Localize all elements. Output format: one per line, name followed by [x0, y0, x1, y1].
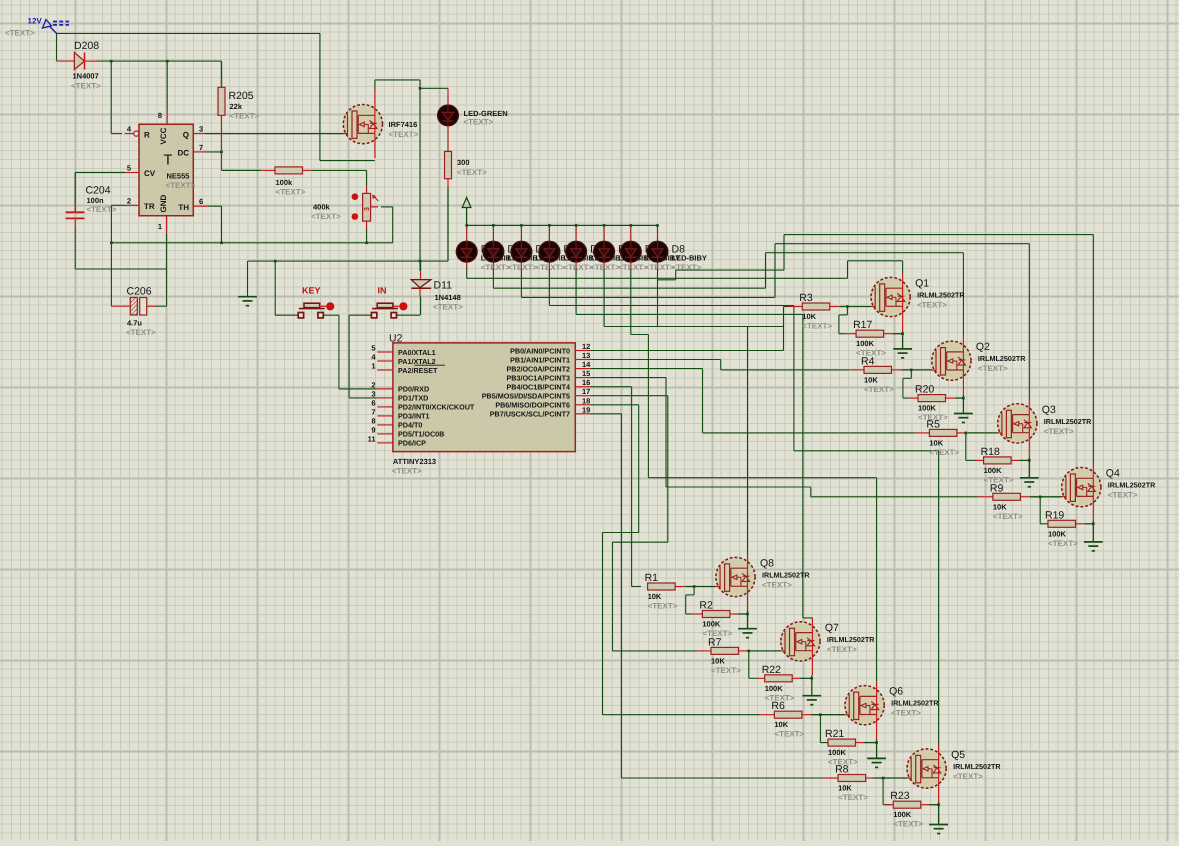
- svg-text:<TEXT>: <TEXT>: [481, 263, 511, 272]
- svg-text:1N4148: 1N4148: [435, 293, 461, 302]
- ground Q8: [738, 629, 757, 638]
- ground Q1: [893, 349, 912, 358]
- button KEY: [275, 261, 334, 318]
- svg-text:14: 14: [582, 360, 591, 369]
- svg-text:100K: 100K: [1048, 529, 1067, 538]
- button IN: [349, 286, 407, 318]
- svg-text:100K: 100K: [984, 466, 1003, 475]
- svg-text:10K: 10K: [648, 592, 662, 601]
- svg-text:IRLML2502TR: IRLML2502TR: [953, 762, 1001, 771]
- svg-text:6: 6: [371, 398, 375, 407]
- resistor R17: [846, 319, 904, 358]
- resistor R6: [760, 700, 845, 739]
- svg-text:ATTINY2313: ATTINY2313: [393, 457, 436, 466]
- svg-text:18: 18: [582, 396, 590, 405]
- svg-text:100K: 100K: [918, 404, 937, 413]
- svg-text:PD4/T0: PD4/T0: [398, 421, 422, 430]
- label text D1: [481, 263, 511, 272]
- svg-text:<TEXT>: <TEXT>: [838, 793, 868, 802]
- LED D2 LED-BIBY: [483, 224, 543, 268]
- resistor R21: [825, 728, 878, 767]
- LED D6 LED-BIBY: [594, 224, 654, 268]
- wire IRF7416 source rail: [375, 80, 420, 271]
- svg-text:17: 17: [582, 387, 590, 396]
- svg-text:<TEXT>: <TEXT>: [978, 364, 1008, 373]
- svg-text:<TEXT>: <TEXT>: [457, 168, 487, 177]
- wire KEY to U2 PD0: [324, 315, 378, 389]
- resistor 300: [445, 151, 488, 261]
- svg-text:<TEXT>: <TEXT>: [774, 730, 804, 739]
- resistor R19: [1045, 509, 1095, 548]
- svg-text:C206: C206: [127, 286, 152, 298]
- wire 12V rail top: [57, 33, 375, 160]
- svg-text:<TEXT>: <TEXT>: [802, 322, 832, 331]
- capacitor C206: [111, 286, 156, 338]
- label text D3: [535, 263, 565, 272]
- wire IN right to D11: [397, 314, 420, 316]
- svg-text:1N4007: 1N4007: [73, 72, 99, 81]
- svg-text:8: 8: [371, 416, 375, 425]
- resistor R5: [915, 418, 998, 457]
- wire LED1 to Q1 drain: [467, 261, 903, 279]
- svg-text:<TEXT>: <TEXT>: [563, 263, 593, 272]
- resistor R8: [824, 764, 908, 803]
- svg-text:10K: 10K: [838, 784, 852, 793]
- svg-text:IN: IN: [378, 286, 387, 296]
- svg-text:5: 5: [127, 164, 131, 173]
- svg-text:8: 8: [158, 111, 162, 120]
- svg-text:100K: 100K: [828, 748, 847, 757]
- svg-text:Q2: Q2: [976, 341, 990, 353]
- svg-text:Q: Q: [183, 130, 189, 139]
- wire R6 to R21: [820, 715, 828, 743]
- svg-text:PD5/T1/OC0B: PD5/T1/OC0B: [398, 430, 444, 439]
- svg-text:<TEXT>: <TEXT>: [917, 301, 947, 310]
- LED D1 LED-BIBY: [456, 224, 516, 268]
- svg-text:IRLML2502TR: IRLML2502TR: [827, 635, 875, 644]
- wire R9 to R19: [1040, 497, 1048, 524]
- svg-text:<TEXT>: <TEXT>: [827, 645, 857, 654]
- svg-text:12V: 12V: [28, 17, 43, 26]
- wire Q output to gate: [205, 133, 344, 135]
- svg-text:7: 7: [199, 143, 203, 152]
- svg-text:Q1: Q1: [915, 278, 929, 290]
- label text D6: [618, 263, 648, 272]
- svg-text:15: 15: [582, 369, 590, 378]
- svg-text:PA2/RESET: PA2/RESET: [398, 366, 438, 375]
- svg-text:10K: 10K: [864, 375, 878, 384]
- svg-text:R2: R2: [699, 600, 713, 612]
- wire IN to U2 PD1: [349, 315, 377, 398]
- wire Q6 source to ground: [876, 739, 878, 758]
- resistor R2: [693, 600, 749, 639]
- transistor Q9 IRF7416: [343, 100, 418, 158]
- svg-text:R19: R19: [1045, 509, 1064, 521]
- resistor R22: [757, 664, 813, 703]
- wire 100k to pot: [312, 170, 367, 186]
- wire TR net vertical: [110, 205, 125, 306]
- wire pin16 to R1: [590, 387, 641, 587]
- wire to LED-GREEN anode: [419, 87, 448, 97]
- svg-text:100k: 100k: [276, 178, 294, 187]
- svg-text:<TEXT>: <TEXT>: [645, 263, 675, 272]
- svg-text:<TEXT>: <TEXT>: [464, 118, 494, 127]
- svg-text:PB4/OC1B/PCINT4: PB4/OC1B/PCINT4: [506, 383, 570, 392]
- chip U2 ATTINY2313: [368, 333, 592, 476]
- svg-text:<TEXT>: <TEXT>: [590, 263, 620, 272]
- label text D2: [507, 263, 537, 272]
- svg-text:6: 6: [199, 197, 203, 206]
- wire to NE555 reset pin: [111, 61, 122, 134]
- resistor R4: [849, 355, 912, 394]
- wire D208 cathode rail: [97, 60, 222, 63]
- svg-text:<TEXT>: <TEXT>: [433, 303, 463, 312]
- ground Q5: [929, 825, 948, 834]
- svg-text:100K: 100K: [856, 339, 875, 348]
- svg-text:<TEXT>: <TEXT>: [648, 602, 678, 611]
- ground Q3: [1020, 478, 1039, 487]
- wire pin13 to R4: [590, 360, 849, 370]
- svg-text:<TEXT>: <TEXT>: [1048, 539, 1078, 548]
- svg-text:<TEXT>: <TEXT>: [953, 772, 983, 781]
- svg-text:PB1/AIN1/PCINT1: PB1/AIN1/PCINT1: [510, 355, 570, 364]
- power symbol 12V: [5, 17, 69, 38]
- svg-text:R1: R1: [645, 572, 659, 584]
- svg-text:100K: 100K: [893, 810, 912, 819]
- svg-text:LED-BIBY: LED-BIBY: [672, 254, 707, 263]
- wire Q2 source to ground: [962, 395, 964, 414]
- wire pin14 to R5: [590, 369, 915, 433]
- svg-text:PB0/AIN0/PCINT0: PB0/AIN0/PCINT0: [510, 346, 570, 355]
- capacitor C204: [66, 173, 126, 229]
- transistor Q1 IRML2502TR: [871, 273, 965, 331]
- wire R4 gate node jog: [903, 370, 932, 398]
- chip U1 NE555: [125, 109, 209, 234]
- svg-text:<TEXT>: <TEXT>: [71, 82, 101, 91]
- svg-text:Q8: Q8: [760, 558, 774, 570]
- resistor R205: [218, 61, 260, 170]
- wire Q1 source to ground: [902, 331, 904, 349]
- resistor R9: [978, 482, 1062, 521]
- wire to NE555 vcc pin: [166, 61, 168, 109]
- label text D7: [645, 263, 675, 272]
- wire Q7 source to ground: [811, 675, 813, 695]
- svg-text:R205: R205: [229, 90, 254, 102]
- svg-text:22k: 22k: [230, 102, 243, 111]
- svg-text:<TEXT>: <TEXT>: [507, 263, 537, 272]
- svg-text:T: T: [164, 153, 173, 169]
- wire pin15 to R9: [590, 378, 978, 497]
- resistor R7: [697, 636, 782, 675]
- svg-text:<TEXT>: <TEXT>: [389, 130, 419, 139]
- diode D11: [411, 261, 463, 315]
- svg-text:DC: DC: [177, 149, 189, 158]
- svg-text:Q5: Q5: [951, 749, 965, 761]
- wire Q5 source to ground: [938, 803, 940, 825]
- svg-text:13: 13: [582, 351, 590, 360]
- svg-text:<TEXT>: <TEXT>: [126, 328, 156, 337]
- label text D8: [672, 263, 702, 272]
- svg-text:PD0/RXD: PD0/RXD: [398, 385, 429, 394]
- wire LED4 to Q5 drain: [549, 269, 938, 745]
- wire LED6 to Q8 drain: [604, 269, 784, 555]
- svg-text:<TEXT>: <TEXT>: [5, 29, 35, 38]
- svg-text:IRLML2502TR: IRLML2502TR: [1108, 481, 1156, 490]
- svg-text:VCC: VCC: [159, 127, 168, 144]
- transistor Q4 IRML2502TR: [1062, 463, 1156, 521]
- resistor R3: [788, 292, 849, 331]
- svg-text:5: 5: [371, 344, 375, 353]
- svg-text:<TEXT>: <TEXT>: [1108, 491, 1138, 500]
- svg-text:R21: R21: [825, 728, 844, 740]
- svg-text:TR: TR: [144, 202, 155, 211]
- svg-text:PD3/INT1: PD3/INT1: [398, 412, 430, 421]
- svg-text:<TEXT>: <TEXT>: [311, 212, 341, 221]
- svg-text:<TEXT>: <TEXT>: [711, 666, 741, 675]
- LED D7 LED-BIBY: [621, 224, 681, 268]
- svg-text:<TEXT>: <TEXT>: [392, 467, 422, 476]
- svg-text:<TEXT>: <TEXT>: [166, 181, 196, 190]
- svg-text:10K: 10K: [774, 720, 788, 729]
- svg-text:10K: 10K: [711, 656, 725, 665]
- wire LED3 to Q3 drain: [521, 244, 1029, 400]
- svg-text:R23: R23: [890, 790, 909, 802]
- transistor Q3 IRML2502TR: [998, 399, 1092, 457]
- wire R5 to R18: [966, 433, 976, 461]
- ground Q4: [1084, 542, 1103, 551]
- resistor R20: [910, 384, 965, 423]
- svg-text:IRLML2502TR: IRLML2502TR: [762, 571, 810, 580]
- svg-text:10K: 10K: [993, 502, 1007, 511]
- wire LED5 to Q7 drain: [576, 269, 812, 620]
- svg-text:2: 2: [371, 380, 375, 389]
- transistor Q7 IRML2502TR: [781, 617, 875, 675]
- svg-text:10K: 10K: [802, 312, 816, 321]
- svg-text:PD6/ICP: PD6/ICP: [398, 439, 426, 448]
- wire R8 to R23: [883, 778, 890, 805]
- wire R7 to R22: [749, 651, 757, 678]
- svg-text:<TEXT>: <TEXT>: [893, 820, 923, 829]
- svg-text:TH: TH: [178, 203, 189, 212]
- resistor 100k: [222, 167, 313, 196]
- svg-text:10K: 10K: [929, 438, 943, 447]
- svg-text:IRLML2502TR: IRLML2502TR: [891, 699, 939, 708]
- svg-text:1: 1: [158, 222, 162, 231]
- svg-text:Q3: Q3: [1042, 404, 1056, 416]
- svg-text:100K: 100K: [702, 620, 721, 629]
- wire Q8 source to ground: [747, 611, 749, 629]
- svg-text:PD2/INT0/XCK/CKOUT: PD2/INT0/XCK/CKOUT: [398, 403, 475, 412]
- svg-text:2: 2: [127, 196, 131, 205]
- ground Q2: [954, 414, 973, 423]
- svg-text:<TEXT>: <TEXT>: [618, 263, 648, 272]
- svg-text:C204: C204: [86, 185, 111, 197]
- svg-text:100K: 100K: [765, 684, 784, 693]
- svg-text:12: 12: [582, 342, 590, 351]
- svg-text:<TEXT>: <TEXT>: [762, 581, 792, 590]
- svg-text:R: R: [144, 130, 150, 139]
- svg-text:IRLML2502TR: IRLML2502TR: [978, 354, 1026, 363]
- wire R1 gate node jog: [686, 587, 717, 615]
- svg-text:IRLML2502TR: IRLML2502TR: [917, 291, 965, 300]
- svg-text:<TEXT>: <TEXT>: [230, 112, 260, 121]
- LED D9 LED-GREEN: [438, 97, 508, 151]
- wire pin18 to R6: [590, 405, 760, 715]
- label text D5: [590, 263, 620, 272]
- ground Q7: [802, 696, 821, 705]
- svg-text:Q6: Q6: [889, 686, 903, 698]
- svg-text:PB3/OC1A/PCINT3: PB3/OC1A/PCINT3: [506, 373, 570, 382]
- wire TH / pot node: [111, 206, 392, 244]
- svg-text:GND: GND: [159, 195, 168, 213]
- transistor Q8 IRML2502TR: [716, 553, 810, 611]
- svg-text:3: 3: [371, 389, 375, 398]
- svg-text:PA0/XTAL1: PA0/XTAL1: [398, 348, 436, 357]
- svg-text:7: 7: [371, 407, 375, 416]
- resistor R23: [886, 790, 940, 829]
- svg-text:<TEXT>: <TEXT>: [993, 512, 1023, 521]
- transistor Q6 IRML2502TR: [845, 681, 939, 739]
- ground near NE555: [238, 297, 257, 306]
- svg-text:R5: R5: [926, 418, 940, 430]
- wire pin19 to R8: [590, 414, 823, 778]
- svg-text:NE555: NE555: [167, 172, 190, 181]
- svg-text:KEY: KEY: [302, 286, 321, 296]
- LED D4 LED-BIBY: [539, 224, 599, 268]
- svg-text:R3: R3: [799, 292, 813, 304]
- svg-text:IRLML2502TR: IRLML2502TR: [1044, 417, 1092, 426]
- svg-text:PB7/USCK/SCL/PCINT7: PB7/USCK/SCL/PCINT7: [490, 410, 570, 419]
- label text D4: [563, 263, 593, 272]
- svg-text:D11: D11: [434, 280, 453, 292]
- svg-text:<TEXT>: <TEXT>: [535, 263, 565, 272]
- svg-text:R20: R20: [915, 384, 934, 396]
- potentiometer 400k: [311, 186, 378, 229]
- wire C204 to NE555 gnd pin: [75, 228, 166, 306]
- wire LED2 to Q2 drain: [493, 253, 963, 337]
- resistor R1: [645, 572, 696, 611]
- wire pin12 to R3: [590, 307, 788, 351]
- svg-text:1: 1: [371, 362, 375, 371]
- resistor R18: [976, 446, 1031, 485]
- svg-text:R18: R18: [981, 446, 1000, 458]
- svg-text:Q7: Q7: [825, 622, 839, 634]
- wire pot wiper down: [381, 207, 393, 243]
- svg-text:R6: R6: [771, 700, 785, 712]
- svg-text:9: 9: [371, 425, 375, 434]
- LED D8 LED-BIBY: [647, 224, 707, 268]
- svg-text:16: 16: [582, 378, 590, 387]
- svg-text:PB6/MISO/DO/PCINT6: PB6/MISO/DO/PCINT6: [495, 401, 570, 410]
- svg-text:<TEXT>: <TEXT>: [87, 205, 117, 214]
- svg-text:<TEXT>: <TEXT>: [1044, 427, 1074, 436]
- svg-text:<TEXT>: <TEXT>: [929, 448, 959, 457]
- wire LED8 to Q4 drain: [658, 235, 1094, 464]
- svg-text:D208: D208: [74, 40, 99, 52]
- power arrow flag: [462, 198, 471, 226]
- wire DC pin to R205 bottom: [205, 151, 222, 153]
- svg-text:R8: R8: [835, 764, 849, 776]
- svg-text:PB5/MOSI/DI/SDA/PCINT5: PB5/MOSI/DI/SDA/PCINT5: [482, 392, 570, 401]
- svg-text:R17: R17: [853, 319, 872, 331]
- svg-text:PA1/XTAL2: PA1/XTAL2: [398, 357, 436, 366]
- svg-text:100n: 100n: [87, 196, 105, 205]
- transistor Q5 IRML2502TR: [907, 745, 1001, 803]
- svg-text:PB2/OC0A/PCINT2: PB2/OC0A/PCINT2: [506, 364, 570, 373]
- LED D5 LED-BIBY: [566, 224, 626, 268]
- svg-text:R22: R22: [762, 664, 781, 676]
- svg-text:U2: U2: [389, 333, 403, 345]
- svg-text:Q4: Q4: [1106, 468, 1120, 480]
- transistor Q2 IRML2502TR: [932, 337, 1026, 395]
- svg-text:R7: R7: [708, 636, 722, 648]
- svg-text:<TEXT>: <TEXT>: [276, 187, 306, 196]
- ground Q6: [867, 758, 886, 767]
- svg-text:3: 3: [199, 125, 203, 134]
- svg-text:11: 11: [368, 434, 376, 443]
- wire LED anode bus: [467, 224, 658, 226]
- svg-text:IRF7416: IRF7416: [389, 120, 418, 129]
- svg-text:PD1/TXD: PD1/TXD: [398, 394, 428, 403]
- svg-text:CV: CV: [144, 169, 156, 178]
- svg-text:400k: 400k: [313, 203, 331, 212]
- wire Q4 source to ground: [1092, 521, 1094, 542]
- wire Q3 source to ground: [1028, 457, 1030, 477]
- svg-text:<TEXT>: <TEXT>: [864, 385, 894, 394]
- svg-text:R4: R4: [861, 355, 875, 367]
- wire pin17 to R7: [590, 396, 696, 651]
- svg-text:<TEXT>: <TEXT>: [891, 709, 921, 718]
- svg-text:R9: R9: [990, 482, 1004, 494]
- LED D3 LED-BIBY: [511, 224, 571, 268]
- ground bus wire: [248, 260, 449, 297]
- svg-text:300: 300: [457, 158, 470, 167]
- diode D208: [57, 40, 102, 91]
- wire R3 gate node jog: [839, 307, 871, 334]
- wire LED7 to Q6 drain: [631, 269, 877, 682]
- svg-text:19: 19: [582, 405, 590, 414]
- svg-text:4.7u: 4.7u: [127, 319, 142, 328]
- svg-text:3: 3: [364, 207, 371, 211]
